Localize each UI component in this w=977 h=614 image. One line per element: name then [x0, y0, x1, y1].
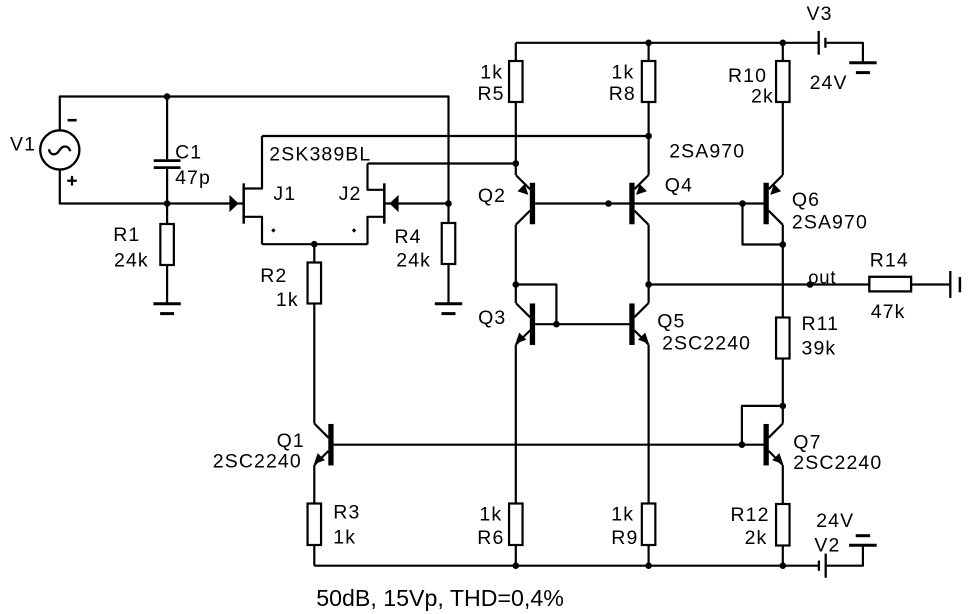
transistor Q7 bottom lead: [769, 451, 783, 465]
transistor Q1 bottom lead: [314, 451, 328, 465]
wire Q7 emitter to R12: [782, 465, 784, 504]
svg-text:24V: 24V: [810, 72, 848, 94]
svg-text:V2: V2: [814, 535, 840, 557]
node J2 drain / R5 junction: [513, 160, 520, 167]
wire Q3 collector-base tie: [516, 285, 557, 325]
svg-text:1k: 1k: [612, 61, 635, 83]
wire Q4 collector to Q5: [647, 225, 649, 303]
wire J2 drain to Q2 emitter node: [368, 162, 516, 164]
svg-text:24k: 24k: [114, 249, 149, 271]
svg-text:Q1: Q1: [277, 430, 305, 452]
svg-text:2k: 2k: [751, 86, 774, 108]
svg-text:R10: R10: [728, 65, 767, 87]
transistor Q6 top lead: [769, 175, 783, 189]
svg-text:2SC2240: 2SC2240: [793, 452, 882, 474]
node R10 supply junction: [780, 40, 787, 47]
node Q4/Q5 collector junction: [645, 281, 652, 288]
resistor R5: [509, 43, 523, 175]
transistor Q4 top lead: [634, 175, 648, 189]
voltage source V1: [40, 130, 79, 169]
transistor Q3 arrow: [516, 333, 527, 344]
svg-text:V3: V3: [807, 3, 833, 25]
wire Q3 emitter to R6: [515, 345, 517, 504]
jfet J1 substrate mark: [271, 228, 275, 232]
transistor Q1 top lead: [314, 424, 328, 438]
ground under R1: [153, 304, 180, 314]
node Q6 collector junction: [780, 241, 787, 248]
node out label tap: [807, 281, 814, 288]
resistor R8: [642, 43, 656, 175]
jfet J2 gate arrow: [389, 195, 398, 212]
resistor R11: [776, 318, 790, 406]
node common source junction: [311, 241, 318, 248]
wire top-left rail V1- to J2 gate column: [60, 97, 449, 204]
transistor Q1 bar: [328, 424, 333, 466]
output terminal pin: [950, 271, 960, 298]
node base row junction B: [739, 200, 746, 207]
ground at V2: [849, 536, 877, 546]
battery V2: [819, 546, 863, 577]
node Q3 base junction: [553, 321, 560, 328]
resistor R12: [776, 504, 790, 566]
resistor R9: [642, 504, 656, 566]
transistor Q7 arrow: [772, 453, 783, 464]
svg-text:24V: 24V: [816, 510, 854, 532]
wire Q1 emitter to R3: [313, 465, 315, 503]
svg-text:R6: R6: [477, 527, 504, 549]
resistor R2: [308, 244, 322, 423]
node C1 top junction: [164, 93, 171, 100]
svg-text:R8: R8: [609, 83, 636, 105]
svg-text:47k: 47k: [871, 301, 906, 323]
transistor Q3 bottom lead: [516, 330, 530, 344]
svg-text:R12: R12: [731, 504, 770, 526]
wire bottom rail: [314, 565, 818, 567]
svg-text:1k: 1k: [333, 527, 356, 549]
battery V3: [819, 31, 863, 62]
jfet J1 gate bar: [242, 183, 245, 223]
svg-text:Q2: Q2: [478, 185, 506, 207]
svg-text:R11: R11: [802, 313, 840, 335]
svg-text:1k: 1k: [276, 289, 299, 311]
node R12 bottom junction: [780, 562, 787, 569]
node Q2/Q3 collector junction: [513, 281, 520, 288]
svg-text:R3: R3: [333, 502, 360, 524]
wire Q7 collector stub: [782, 406, 784, 424]
node J1 drain / R8 junction: [645, 133, 652, 140]
svg-text:R5: R5: [478, 83, 505, 105]
transistor Q2 arrow: [518, 184, 529, 195]
svg-text:Q5: Q5: [657, 311, 685, 333]
transistor Q1 arrow: [314, 453, 325, 464]
transistor Q7 bar: [764, 424, 769, 466]
svg-text:R9: R9: [611, 527, 638, 549]
resistor R10: [776, 43, 790, 175]
node R8 supply junction: [645, 40, 652, 47]
svg-text:R4: R4: [395, 226, 422, 248]
svg-text:50dB, 15Vp, THD=0,4%: 50dB, 15Vp, THD=0,4%: [316, 585, 564, 611]
svg-text:R2: R2: [260, 265, 287, 287]
jfet J2 gate bar: [383, 183, 386, 223]
svg-text:C1: C1: [175, 141, 202, 163]
resistor R1: [160, 204, 174, 303]
svg-text:1k: 1k: [479, 504, 502, 526]
svg-text:Q7: Q7: [793, 432, 821, 454]
svg-text:Q3: Q3: [478, 307, 506, 329]
ground under R4: [435, 304, 462, 314]
svg-text:1k: 1k: [611, 504, 634, 526]
V1 minus sign: [68, 119, 77, 122]
V1 plus sign: [67, 176, 77, 186]
wire Q6 collector to R11: [782, 225, 784, 318]
svg-text:47p: 47p: [175, 167, 211, 189]
svg-text:V1: V1: [10, 134, 36, 156]
jfet J1 source lead: [244, 217, 262, 244]
node R6 bottom junction: [513, 562, 520, 569]
wire base row Q1-Q7: [334, 444, 764, 446]
wire Q2 collector to Q3: [515, 225, 517, 303]
node C1 bottom junction: [164, 200, 171, 207]
ground at V3: [849, 63, 876, 73]
transistor Q5 arrow: [638, 333, 649, 344]
wire J2 gate to R4: [384, 202, 448, 204]
transistor Q4 bar: [629, 183, 634, 225]
wire J1 drain to Q4 emitter node: [262, 135, 649, 137]
jfet J2 drain lead: [368, 164, 385, 190]
node base row junction A: [605, 200, 612, 207]
node R9 bottom junction: [645, 562, 652, 569]
svg-text:2SA970: 2SA970: [792, 212, 868, 234]
transistor Q4 arrow: [636, 184, 647, 195]
transistor Q6 arrow: [770, 184, 781, 195]
wire base row Q2-Q4-Q6: [535, 202, 763, 204]
svg-text:2k: 2k: [745, 527, 768, 549]
transistor Q5 bar: [629, 303, 634, 345]
transistor Q2 bar: [530, 183, 535, 225]
transistor Q5 top lead: [634, 303, 648, 317]
capacitor C1: [154, 97, 181, 204]
wire Q7 collector-base tie: [742, 406, 783, 445]
svg-text:Q6: Q6: [792, 189, 820, 211]
transistor Q2 top lead: [516, 175, 530, 189]
svg-text:R14: R14: [870, 250, 909, 272]
node Q7 collector junction: [780, 403, 787, 410]
resistor R6: [509, 504, 523, 566]
svg-text:2SA970: 2SA970: [669, 141, 745, 163]
wire Q6 base-collector tie: [743, 204, 783, 245]
jfet J1 drain lead: [244, 136, 262, 189]
wire base row Q3-Q5: [535, 323, 629, 325]
node J2 gate / R4 junction: [445, 200, 452, 207]
transistor Q3 top lead: [516, 303, 530, 317]
transistor Q6 bottom lead: [769, 211, 783, 225]
svg-text:2SK389BL: 2SK389BL: [269, 144, 371, 166]
transistor Q4 bottom lead: [634, 211, 648, 225]
svg-text:J2: J2: [339, 183, 362, 205]
svg-text:24k: 24k: [396, 250, 431, 272]
wire positive supply rail: [516, 42, 818, 44]
resistor R4: [442, 204, 456, 303]
resistor R14: [869, 277, 949, 292]
svg-text:out: out: [808, 267, 836, 288]
svg-text:Q4: Q4: [665, 175, 693, 197]
transistor Q6 bar: [764, 183, 769, 225]
wire output node row: [649, 283, 870, 285]
svg-text:1k: 1k: [480, 61, 503, 83]
transistor Q2 bottom lead: [516, 211, 530, 225]
jfet J2 substrate mark: [352, 228, 356, 232]
jfet J2 source lead: [368, 217, 385, 244]
node Q7 base tie junction: [739, 441, 746, 448]
wire common source: [262, 243, 368, 245]
wire V1 plus to J1 gate: [60, 170, 244, 204]
svg-text:J1: J1: [273, 183, 296, 205]
jfet J1 gate arrow: [229, 195, 238, 212]
transistor Q3 bar: [530, 303, 535, 345]
svg-text:R1: R1: [113, 224, 140, 246]
svg-text:39k: 39k: [802, 338, 837, 360]
svg-text:2SC2240: 2SC2240: [213, 451, 302, 473]
wire Q5 emitter to R9: [647, 345, 649, 504]
resistor R3: [308, 504, 322, 566]
transistor Q7 top lead: [769, 424, 783, 438]
svg-text:2SC2240: 2SC2240: [662, 333, 751, 355]
transistor Q5 bottom lead: [634, 330, 648, 344]
